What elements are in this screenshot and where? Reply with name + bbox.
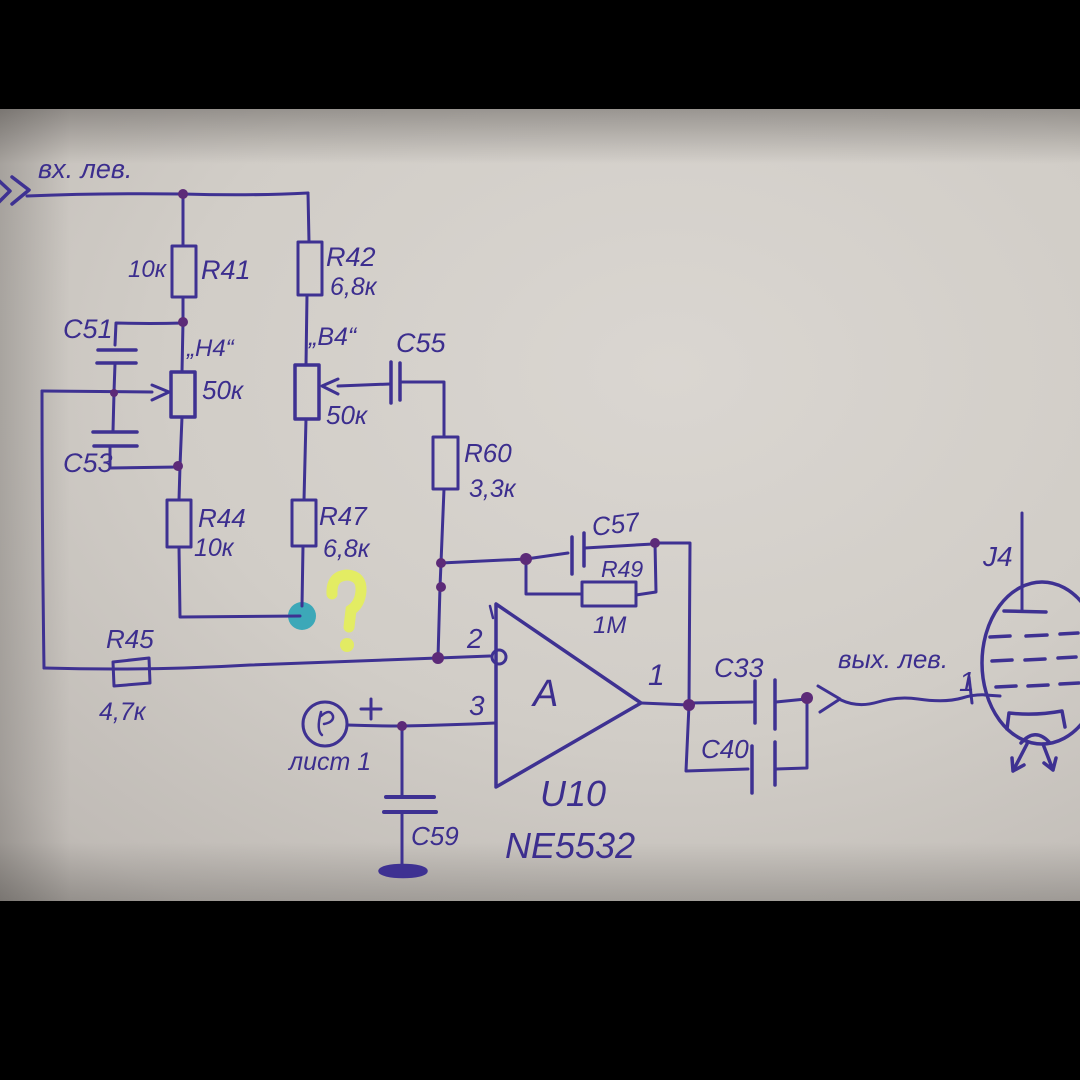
svg-text:„Н4“: „Н4“ <box>186 335 236 362</box>
svg-text:R49: R49 <box>601 556 643 582</box>
svg-text:R60: R60 <box>464 438 512 468</box>
svg-text:1: 1 <box>648 659 665 692</box>
svg-text:1: 1 <box>959 666 975 697</box>
svg-text:C59: C59 <box>411 821 459 851</box>
svg-text:вх. лев.: вх. лев. <box>38 154 132 184</box>
svg-text:J4: J4 <box>982 541 1013 572</box>
svg-text:50к: 50к <box>326 400 369 430</box>
svg-text:U10: U10 <box>540 773 606 814</box>
svg-text:6,8к: 6,8к <box>323 535 371 563</box>
svg-text:1М: 1М <box>593 612 626 639</box>
svg-text:R45: R45 <box>106 624 154 654</box>
svg-text:C51: C51 <box>63 314 113 344</box>
svg-text:6,8к: 6,8к <box>330 273 378 301</box>
svg-text:C53: C53 <box>63 448 113 478</box>
svg-text:3,3к: 3,3к <box>469 475 517 503</box>
svg-text:10к: 10к <box>194 534 235 562</box>
svg-text:„В4“: „В4“ <box>308 323 358 351</box>
svg-text:50к: 50к <box>202 375 245 405</box>
svg-text:C33: C33 <box>714 653 764 683</box>
svg-text:R44: R44 <box>198 503 246 533</box>
svg-text:C55: C55 <box>396 328 447 358</box>
svg-text:10к: 10к <box>128 256 168 283</box>
svg-text:вых. лев.: вых. лев. <box>838 644 948 674</box>
svg-text:C40: C40 <box>701 734 749 764</box>
svg-text:2: 2 <box>466 623 483 654</box>
svg-text:R42: R42 <box>326 242 376 272</box>
svg-text:R41: R41 <box>201 255 251 285</box>
svg-text:A: A <box>531 673 558 715</box>
svg-text:4,7к: 4,7к <box>99 698 147 726</box>
svg-text:NE5532: NE5532 <box>505 825 635 866</box>
svg-text:C57: C57 <box>590 506 643 542</box>
svg-text:лист 1: лист 1 <box>287 748 371 776</box>
svg-text:3: 3 <box>469 690 485 721</box>
svg-text:R47: R47 <box>319 501 368 531</box>
